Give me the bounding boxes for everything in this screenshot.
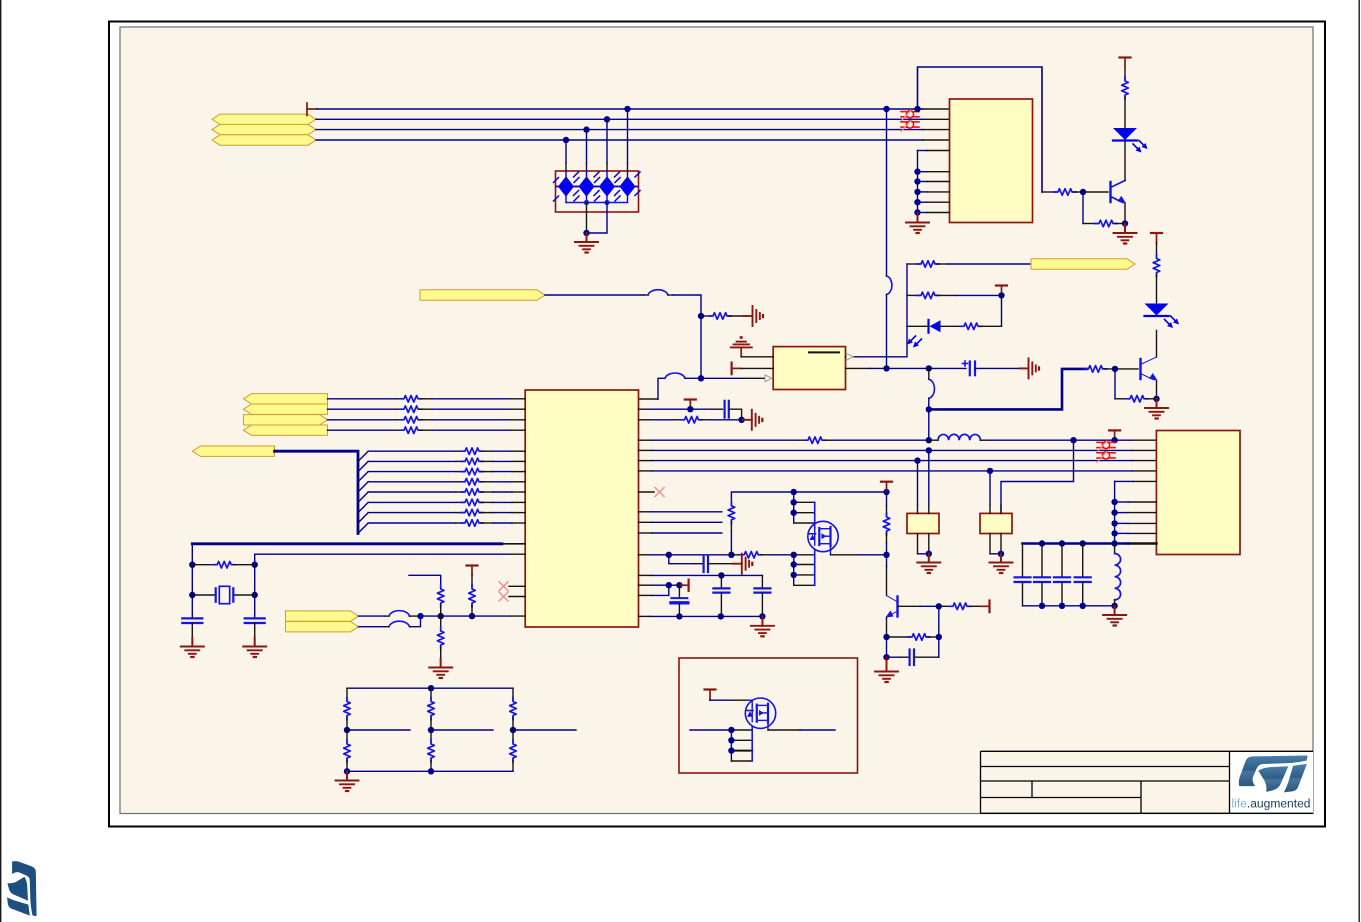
net label NET4 — [420, 290, 545, 300]
wire 368 to cap — [887, 367, 967, 369]
junction Q2 base — [1112, 366, 1118, 372]
ground xtal1 — [181, 638, 204, 658]
LED D3 (opto) — [907, 320, 941, 348]
resistor R-eQ3 — [887, 634, 939, 641]
wire U2 top loop — [918, 67, 1043, 192]
wire opto row — [907, 325, 962, 327]
net label NET3 — [212, 135, 316, 145]
capacitor C-762 — [754, 575, 770, 616]
wire 616 row — [421, 615, 511, 617]
wire 928 down to 440 — [928, 409, 930, 440]
junction 1114/543 — [1111, 540, 1117, 546]
pin U2 gnd3 — [914, 178, 949, 184]
ground xtal2 — [243, 638, 266, 658]
transistor Q3 — [885, 596, 897, 618]
wire Q3 emitter — [886, 618, 888, 637]
MOSFET Q4 source ladder — [791, 551, 815, 585]
ground Q3 — [875, 657, 898, 682]
power bar VCC1 — [1120, 58, 1131, 68]
wire to U3 pin3 — [701, 375, 772, 382]
ground rotated 316 — [744, 306, 764, 326]
LED D4 — [1145, 304, 1180, 329]
junction TVS rail a — [584, 200, 589, 205]
junction 668/554 — [666, 552, 672, 558]
TVS diode D1c — [595, 171, 620, 203]
wire hop2 — [665, 373, 701, 378]
nc cross U1 left a — [499, 582, 525, 591]
ground FL2 — [990, 554, 1013, 574]
wire FL1 pins down — [918, 534, 929, 554]
wire Q1 collector — [1124, 141, 1126, 181]
pin U2 gnd2 — [914, 169, 949, 175]
junction xtal L1 — [189, 562, 195, 568]
DNF jumper SB3 — [1097, 441, 1115, 452]
U3 internal bar — [809, 351, 839, 353]
wire bus3 — [316, 129, 923, 131]
divider col1 tap — [344, 727, 410, 733]
wire stub 575 — [409, 575, 441, 587]
wire bus thick — [275, 451, 359, 533]
junction 731/554 — [728, 552, 734, 558]
no-connect flag top wire — [307, 103, 317, 116]
pin J1 512.6 — [1111, 509, 1156, 515]
transistor Q2 — [1141, 357, 1158, 380]
wire U2 gnd bus — [917, 151, 919, 213]
wire 690 to cap — [684, 408, 723, 410]
divider col3 tap — [510, 727, 576, 733]
power bar VCC3 — [467, 566, 478, 576]
wire Q4 drain — [831, 546, 887, 555]
ground rotated 368 — [1020, 358, 1040, 378]
junction rail c3 — [1059, 540, 1065, 546]
junction 762/616 — [759, 613, 765, 619]
junction 420/616 — [417, 613, 423, 619]
divider col3 bottom R — [510, 730, 517, 771]
bus entry 4 — [358, 482, 368, 492]
pin J1 533.4 — [1111, 530, 1156, 536]
wire row 575.4 — [639, 574, 763, 576]
pin J1 thick 543.5 — [1023, 542, 1157, 545]
wire hop1 — [644, 290, 673, 295]
wire crystal left vert — [191, 544, 193, 618]
resistor R-pullup 316 — [701, 313, 744, 320]
wire crystal right vert — [254, 554, 256, 618]
MOSFET Q4 — [808, 521, 838, 551]
pin J1 481 corner — [1115, 481, 1157, 543]
junction 1114/440 — [1111, 437, 1117, 443]
resistor R-vert731 — [728, 501, 735, 555]
capacitor C-657 — [887, 650, 939, 666]
wire row 585.2 — [639, 584, 680, 586]
junction 938/637 — [936, 634, 942, 640]
junction FL2 gnd — [998, 551, 1004, 557]
wire row 595.4 — [639, 585, 669, 595]
TVS diode D1d — [615, 171, 640, 203]
junction FL1 gnd — [926, 551, 932, 557]
wire TVS common rail — [566, 202, 628, 204]
wire to corner 701 — [673, 295, 701, 316]
LED D2 — [1113, 128, 1148, 153]
option box (red) — [679, 658, 858, 773]
wire cap1 to gnd — [191, 623, 193, 638]
junction 701/378 — [698, 375, 704, 381]
wire bus2 pin stub — [923, 118, 950, 120]
net label NET1 — [212, 114, 316, 124]
wire NET12 + hop — [359, 616, 421, 627]
opto vertical 907 — [906, 264, 908, 326]
junction Q1 base — [1080, 189, 1086, 195]
bus entry 1 — [358, 451, 368, 461]
power bar VCC7 — [881, 482, 892, 492]
bus entry 3 — [358, 472, 368, 482]
junction 701/316 — [698, 313, 704, 319]
DNF jumper SB4 — [1097, 451, 1115, 462]
junction Q3 base — [936, 603, 942, 609]
junction brail c4 — [1080, 603, 1086, 609]
resistor R-opto1 — [907, 261, 948, 268]
fan row 461.4 — [368, 458, 525, 465]
junction brail c3 — [1059, 603, 1065, 609]
junction 721/575 — [718, 572, 724, 578]
junction 690/409 — [687, 406, 693, 412]
bus entry 7 — [358, 513, 368, 523]
resistor R-440row — [804, 437, 929, 444]
TVS diode D1b — [574, 171, 599, 203]
wire+resistor row 398.8 — [328, 396, 526, 403]
inductor L2 vertical — [1115, 544, 1121, 606]
capacitor C-409 — [725, 401, 729, 418]
pin U3 right1 out-arrow — [846, 353, 857, 360]
wire TVS drop 2 — [586, 130, 588, 171]
pin U3 right2 — [846, 367, 887, 369]
junction Q2 emitter — [1153, 396, 1159, 402]
resistor R-e Q2 — [1115, 396, 1157, 403]
wire Q1 base-e link — [1082, 192, 1084, 224]
resistor R-xtal — [192, 561, 254, 568]
wire Q2 emitter — [1156, 380, 1158, 398]
net label NET11 — [286, 611, 359, 621]
wire U3 out1 — [856, 326, 907, 357]
port bar Q3 — [981, 601, 990, 613]
ESD protection array D1 box — [556, 171, 639, 212]
pin J1 523.4 — [1111, 520, 1156, 526]
ground Q1 — [1114, 224, 1137, 244]
junction bus1/TVS — [624, 106, 630, 112]
IC U2 (top right) — [950, 99, 1033, 223]
pin U1 right 399 done above; row 409 — [639, 408, 685, 410]
capacitor C-679 thick — [671, 585, 688, 616]
wire cap563 to gndr — [708, 563, 733, 565]
junction bus4/TVS — [563, 137, 569, 143]
divider col2 top R — [428, 688, 435, 730]
wire cap2 to gnd — [254, 623, 256, 638]
pin U2 gnd corner — [918, 150, 950, 152]
resistor R-440 upper — [437, 585, 444, 617]
wire Q1 emitter — [1124, 203, 1126, 224]
wire bus2 — [316, 118, 923, 120]
net label NET9 — [244, 425, 328, 435]
resistor R-Q2base — [1084, 366, 1138, 373]
pin stub 616 — [510, 615, 525, 617]
ground divider — [336, 771, 359, 791]
capacitor C-pol 368 — [963, 361, 976, 375]
resistor network top rail — [347, 687, 513, 689]
ground rotated 563 — [733, 554, 753, 574]
pin U1 right 511.8 — [639, 511, 722, 513]
port bar 688 — [679, 580, 688, 591]
junction 928/450 — [926, 447, 932, 453]
ground rotated 419 — [743, 410, 763, 430]
net label NET5 — [1031, 259, 1135, 269]
wire FL1 right pin up — [928, 450, 930, 513]
wire FL2 pins down — [990, 534, 1001, 554]
nc cross U1 right 492 — [639, 488, 665, 497]
ground FL1 — [917, 554, 940, 574]
junction 886/368 — [883, 365, 889, 371]
wire inductor out — [980, 439, 1156, 441]
wire OSC thick — [192, 542, 525, 545]
wire Q2 base-e link — [1114, 369, 1116, 399]
wire 938 vert — [938, 606, 940, 657]
bus entry 6 — [358, 502, 368, 512]
connector J1 — [1156, 431, 1240, 555]
wire cap to gndr — [975, 367, 1020, 369]
wire bus3 pin stub — [923, 129, 950, 131]
junction rail c4 — [1080, 540, 1086, 546]
TVS diode D1a — [554, 171, 579, 203]
capacitor C-563 — [704, 556, 708, 572]
wire TVS to gnd 1 — [586, 203, 588, 234]
ST logo — [1239, 756, 1308, 793]
MCU U1 — [525, 390, 638, 627]
junction Q1 emitter — [1122, 220, 1128, 226]
wire bus4 pin stub — [923, 139, 950, 141]
pin U1 right 533 — [639, 532, 722, 534]
capacitor Cb4 — [1075, 544, 1091, 583]
cap branch 668 — [669, 555, 703, 564]
inductor L1 — [938, 434, 980, 440]
wire TVS drop 4 — [627, 109, 629, 171]
fan row 492 — [368, 489, 525, 496]
capacitor Cb3 — [1054, 544, 1070, 583]
junction bus2/TVS — [604, 116, 610, 122]
resistor R-440 lower — [437, 616, 444, 659]
net label NET7 — [244, 404, 328, 414]
capacitor Cb1 — [1015, 577, 1031, 582]
junction xtal R1 — [252, 562, 258, 568]
wire row 450 — [639, 449, 1157, 451]
resistor network bottom rail — [347, 770, 513, 772]
power bar VCC5 — [1109, 430, 1120, 440]
junction 668/585 — [666, 582, 672, 588]
wire bus1 pin stub — [923, 108, 950, 110]
junction 679/585 — [676, 582, 682, 588]
junction 886/657 — [883, 654, 889, 660]
capacitor C-721 — [713, 575, 729, 616]
junction 886/554 — [883, 552, 889, 558]
net label NET2 — [212, 124, 316, 134]
wire to NET5 — [948, 263, 1031, 265]
wire row 440 — [639, 439, 807, 441]
wire gate net 492 — [731, 492, 886, 504]
net label NET10 — [193, 446, 275, 456]
pin U3 left2 — [741, 367, 773, 369]
wire+resistor row 430.2 — [328, 427, 526, 434]
MOSFET Q4 gate ladder — [791, 492, 815, 528]
power bar VCC6 — [1151, 233, 1162, 243]
divider col1 bottom R — [344, 730, 351, 771]
fan row 512.6 — [368, 509, 525, 516]
wire TVS drop 3 — [606, 119, 608, 171]
fan row 502.4 — [368, 499, 525, 506]
divider col2 tap — [428, 727, 493, 733]
power bar VCC8 — [705, 690, 716, 700]
bottom-left partial ST logo — [7, 861, 37, 916]
wire row 554.8 left — [639, 554, 732, 556]
wire 928 to inductor — [929, 439, 938, 441]
MOSFET Q5 source ladder — [728, 727, 752, 761]
junction brail L2 — [1111, 603, 1117, 609]
wire FL1 left pin up — [917, 461, 919, 514]
junction brail col1 — [344, 768, 350, 774]
wire Q3 collector — [886, 555, 888, 596]
pin U2 gnd5 — [914, 199, 949, 205]
junction bus1 loop — [914, 106, 920, 112]
pin U1 right 419.8 + resistor — [639, 417, 742, 424]
nc cross U1 left b — [499, 592, 525, 601]
junction Q3 emitter — [883, 634, 889, 640]
power bar VCC4 — [685, 400, 696, 410]
wire NET11 + hop — [359, 611, 421, 616]
junction brail col2 — [428, 768, 434, 774]
capacitor C-xtal2 — [245, 618, 265, 623]
net label NET6 — [244, 394, 328, 404]
fan row 471.6 — [368, 468, 525, 475]
wire NET4 to hop — [545, 294, 644, 296]
junction TVS rail b — [604, 200, 609, 205]
pin U1 top-right wire — [639, 378, 666, 399]
resistor R-472 — [469, 576, 476, 617]
sheet outer border — [109, 22, 1325, 827]
ground TVS — [575, 233, 598, 253]
pin J1 502 — [1111, 499, 1156, 505]
wire cap to corner down — [729, 409, 742, 420]
filter module FL2 — [980, 513, 1012, 533]
wire FL2 left pin up — [989, 471, 991, 514]
wire 1001 down — [1001, 295, 1003, 326]
resistor R-led2 — [1153, 243, 1160, 304]
regulator U3 — [773, 347, 845, 390]
wire cap bank bottom rail — [1023, 605, 1115, 607]
ground 440 — [429, 659, 452, 679]
junction 928/409 — [926, 406, 932, 412]
wire FL2 right pin loop — [1001, 440, 1074, 513]
pin U1 right 522.3 — [639, 521, 722, 523]
power bar VCC2 — [996, 286, 1007, 296]
DNF jumper SB2 — [901, 121, 919, 132]
wire Q5 source row — [690, 729, 752, 731]
junction 793/492 — [791, 489, 797, 495]
resistor R-vert886 — [883, 492, 890, 555]
wire+resistor row 419.8 — [328, 417, 526, 424]
net label NET12 — [286, 622, 359, 632]
resistor R-opto3 — [960, 323, 1002, 330]
junction 886/492 — [883, 489, 889, 495]
port bar U3 pin2 — [732, 363, 741, 375]
wire Q3 emitter down — [886, 637, 888, 657]
wire bus4 — [316, 139, 923, 141]
inverted ground flag U3 pin1 — [731, 336, 752, 357]
wire TVS to gnd 2 — [587, 203, 608, 234]
junction 440/616 — [438, 613, 444, 619]
filter module FL1 — [907, 513, 939, 533]
ground Q2 — [1145, 399, 1168, 419]
wire TVS drop 1 — [565, 140, 567, 171]
junction bus3/TVS — [583, 126, 589, 132]
pin U3 left1 — [741, 356, 773, 358]
wire+resistor row 409.2 — [328, 406, 526, 413]
wire OSC2 — [255, 553, 526, 555]
junction 721/616 — [718, 613, 724, 619]
junction 928/440 — [926, 437, 932, 443]
junction 886/109 — [883, 106, 889, 112]
wire cap bank bottoms — [1023, 582, 1083, 606]
ground U2 — [906, 213, 929, 234]
junction 741/419 — [738, 417, 744, 423]
title block — [981, 751, 1314, 813]
junction 928/368 — [926, 365, 932, 371]
capacitor Cb2 — [1034, 544, 1050, 583]
resistor R-e Q1 — [1083, 220, 1125, 227]
resistor R-opto2 — [907, 292, 955, 299]
transistor Q1 — [1111, 181, 1126, 204]
resistor R-base Q1 — [1042, 189, 1083, 196]
junction 990/470 — [987, 468, 993, 474]
pin U2 gnd4 — [914, 189, 949, 195]
junction 1073/440 — [1070, 437, 1076, 443]
MOSFET Q5 — [745, 698, 775, 728]
wire 701 down — [700, 316, 702, 378]
wire 409 thick L to Q2 — [929, 369, 1087, 410]
net label NET8 — [244, 415, 328, 425]
resistor R-led1 — [1122, 68, 1129, 129]
wire row 460 — [639, 460, 1157, 462]
bus entry 2 — [358, 461, 368, 471]
wire Q1 base — [1083, 191, 1108, 193]
fan row 451.2 — [368, 448, 525, 455]
resistor R-554 — [731, 552, 793, 559]
wire to 1001 — [955, 294, 1002, 296]
capacitor C-xtal1 — [182, 618, 202, 623]
sheet inner border — [120, 27, 1313, 814]
fan row 481.8 — [368, 479, 525, 486]
wire row 470.9 — [639, 470, 1157, 472]
junction xtal R2 — [252, 592, 258, 598]
DNF jumper SB1 — [901, 110, 919, 121]
pin U2 gnd6 — [914, 209, 949, 215]
wire vertical 886 with hop — [887, 109, 892, 368]
wire bus1 — [317, 108, 923, 110]
bus entry 5 — [358, 492, 368, 502]
ground 762 — [751, 616, 774, 636]
junction TVS gnd — [583, 230, 589, 236]
wire 928 hop down — [929, 368, 935, 409]
bus entry 8 — [358, 523, 368, 533]
divider col3 top R — [510, 688, 517, 730]
crystal Y1 — [192, 586, 254, 603]
fan row 523 — [368, 520, 525, 527]
divider col2 bottom R — [428, 730, 435, 771]
